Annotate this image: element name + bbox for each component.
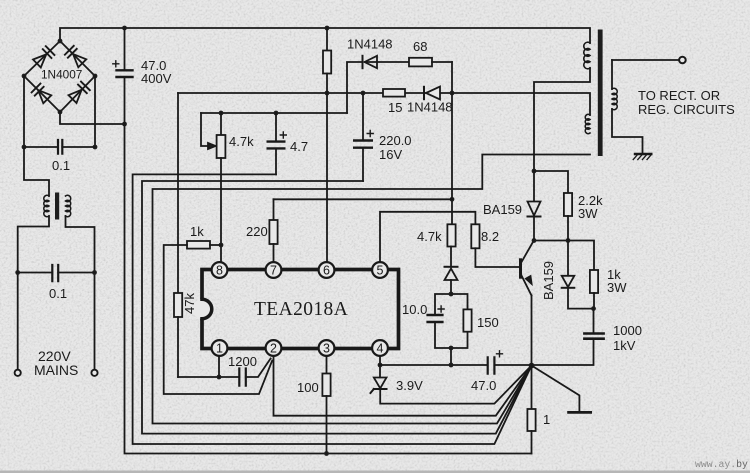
- node 1k / pin8 junction: [219, 243, 224, 248]
- svg-text:1N4007: 1N4007: [41, 68, 82, 82]
- node 1000 cap top: [591, 306, 596, 311]
- wire star to chassis ground: [532, 366, 580, 412]
- wire x452 branch: [451, 62, 453, 224]
- wire star line y365: [380, 339, 594, 365]
- wire pin1 lead: [218, 356, 220, 377]
- capacitor C8 47.0: [488, 351, 503, 374]
- IC notch: [192, 299, 212, 319]
- diode D7 BA159 lower: [562, 241, 594, 309]
- inductor L1a choke left winding: [44, 195, 49, 216]
- svg-text:1N4148: 1N4148: [347, 37, 393, 52]
- node y93 C5 top: [361, 91, 366, 96]
- terminal mains left: [15, 370, 21, 376]
- svg-text:MAINS: MAINS: [34, 362, 78, 378]
- svg-text:1: 1: [543, 412, 550, 427]
- pin 5: [372, 262, 388, 278]
- svg-text:0.1: 0.1: [49, 286, 67, 301]
- transistor Q1 emitter: [522, 276, 532, 366]
- resistor R8 8.2: [471, 224, 519, 267]
- wire choke left to mains left: [18, 216, 49, 370]
- wire y171 to 2.2k: [534, 171, 568, 193]
- node x452 y199: [450, 197, 455, 202]
- svg-text:4: 4: [377, 342, 384, 356]
- svg-text:4.7k: 4.7k: [229, 134, 254, 149]
- wire choke right to mains right: [66, 216, 95, 370]
- wire bus L2: [133, 174, 532, 444]
- node 0.1 lower left: [15, 270, 20, 275]
- capacitor C3 0.1 lower: [18, 265, 95, 281]
- node C4 top: [274, 111, 279, 116]
- wire secondary output: [612, 59, 679, 61]
- wire pin7 y199 line: [274, 198, 453, 200]
- wire primary bottom to collector: [534, 68, 590, 171]
- transformer T1 primary winding: [584, 42, 590, 69]
- capacitor C5 220.0 16V: [354, 93, 373, 181]
- terminal output circle: [679, 57, 686, 64]
- svg-text:2: 2: [270, 342, 277, 356]
- wire left AC to choke: [24, 147, 49, 196]
- svg-text:1kV: 1kV: [613, 338, 636, 353]
- resistor R11 1: [527, 366, 535, 454]
- svg-text:1200: 1200: [228, 354, 257, 369]
- wire 1200 line: [178, 359, 271, 378]
- svg-text:4.7: 4.7: [290, 139, 308, 154]
- svg-text:1000: 1000: [613, 323, 642, 338]
- wire 10-150 network: [435, 294, 468, 365]
- choke core: [55, 193, 59, 220]
- node C1 bottom junction: [122, 122, 127, 127]
- transformer T1 aux winding: [585, 114, 590, 133]
- svg-text:8: 8: [216, 264, 223, 278]
- node bridge bottom: [58, 110, 63, 115]
- svg-text:220.0: 220.0: [379, 133, 412, 148]
- svg-text:1: 1: [216, 342, 223, 356]
- diode D5 zener 3.9V: [371, 366, 532, 404]
- node 0.1 cap line right: [93, 145, 98, 150]
- node zener rail: [449, 292, 454, 297]
- wire main left ground bus: [125, 124, 532, 454]
- svg-text:6: 6: [323, 264, 330, 278]
- node pot top: [219, 111, 224, 116]
- terminal mains right: [91, 370, 97, 376]
- svg-text:www.ay.by: www.ay.by: [695, 459, 748, 470]
- svg-text:400V: 400V: [141, 71, 172, 86]
- node pin4 / 47 line: [378, 363, 383, 368]
- pin 6: [319, 262, 335, 278]
- svg-text:TEA2018A: TEA2018A: [254, 299, 348, 320]
- svg-text:47.0: 47.0: [471, 378, 496, 393]
- svg-text:1N4148: 1N4148: [407, 100, 453, 115]
- svg-text:7: 7: [270, 264, 277, 278]
- diode bridge top-left: [33, 46, 54, 67]
- node bridge right: [93, 74, 98, 79]
- resistor R7 4.7k: [447, 224, 455, 266]
- node 47 line / 10-150: [449, 363, 454, 368]
- wire pin2 drop: [274, 356, 532, 415]
- svg-text:220: 220: [246, 224, 268, 239]
- diode D6 BA159 upper: [528, 171, 541, 241]
- pin 7: [266, 262, 282, 278]
- wire pin4 lead: [379, 356, 381, 377]
- node bridge left: [22, 74, 27, 79]
- svg-text:8.2: 8.2: [481, 229, 499, 244]
- node 10-150 bottom: [449, 346, 454, 351]
- resistor R12 2.2k 3W: [564, 193, 572, 241]
- capacitor C9 1000 1kV: [584, 309, 603, 339]
- svg-text:68: 68: [413, 39, 427, 54]
- resistor R4 15: [383, 89, 405, 97]
- node star ground point: [529, 363, 535, 369]
- diode D4 zener under 4.7k: [445, 267, 458, 294]
- bridge rectifier B1 1N4007 frame: [24, 41, 95, 112]
- svg-text:16V: 16V: [379, 147, 402, 162]
- node bridge top: [58, 39, 63, 44]
- resistor R13 1k 3W: [590, 270, 598, 309]
- resistor R-pin6 unlabeled: [323, 28, 331, 262]
- wire supply line y93: [178, 93, 590, 115]
- node 0.1 cap line left: [22, 145, 27, 150]
- wire feedback line y113: [201, 112, 347, 114]
- svg-text:TO RECT. OR: TO RECT. OR: [638, 88, 720, 103]
- pin 3: [319, 340, 335, 356]
- svg-text:3W: 3W: [607, 280, 627, 295]
- svg-text:3.9V: 3.9V: [396, 378, 423, 393]
- capacitor C7 1200: [239, 369, 246, 386]
- ground chassis bar: [569, 411, 591, 414]
- node y93 x452: [450, 91, 455, 96]
- wire bus L3: [142, 181, 532, 434]
- node top rail / R-pin6 junction: [325, 26, 330, 31]
- node 2.2k bottom / BA159b top: [566, 238, 571, 243]
- svg-text:4.7k: 4.7k: [417, 229, 442, 244]
- wire bridge right leg: [94, 76, 96, 147]
- wire 1k left to pin2: [164, 245, 273, 394]
- pin 2: [266, 340, 282, 356]
- capacitor C2 0.1 upper: [24, 140, 95, 154]
- svg-text:5: 5: [377, 264, 384, 278]
- diode bridge bottom-right: [69, 82, 90, 103]
- svg-text:10.0: 10.0: [402, 302, 427, 317]
- resistor R2 47k: [174, 293, 182, 377]
- node 100-resistor / ground bus: [324, 451, 329, 456]
- diode D3 1N4148 lower: [424, 87, 440, 100]
- wire 47k branch from y93: [177, 93, 179, 293]
- svg-text:1k: 1k: [190, 224, 204, 239]
- transistor Q1 collector: [522, 241, 534, 263]
- wire bridge left leg: [23, 76, 25, 147]
- node y93 pin6 line: [325, 91, 330, 96]
- svg-text:150: 150: [477, 315, 499, 330]
- transformer T1 secondary winding: [612, 60, 643, 153]
- capacitor C4 4.7: [268, 113, 287, 174]
- pin 4: [372, 340, 388, 356]
- svg-text:47k: 47k: [182, 293, 197, 314]
- wire bridge bottom to C1 bottom: [60, 112, 125, 124]
- transformer T1 core: [598, 30, 603, 157]
- svg-text:BA159: BA159: [483, 202, 522, 217]
- wire pin5 line: [380, 212, 475, 262]
- potentiometer R1 4.7k wiper: [201, 113, 216, 149]
- capacitor C1 47.0 400V: [113, 28, 133, 124]
- node top rail / C1 junction: [122, 26, 127, 31]
- svg-text:3: 3: [323, 342, 330, 356]
- svg-text:15: 15: [388, 100, 402, 115]
- resistor R9 150: [463, 309, 471, 331]
- ground hatched secondary: [633, 154, 651, 160]
- potentiometer R1 4.7k body: [217, 113, 226, 262]
- wire collector line y240: [534, 241, 594, 271]
- transistor Q1 base bar: [519, 260, 522, 277]
- inductor L1b choke right winding: [66, 195, 71, 216]
- wire top HV rail: [60, 28, 590, 43]
- pin 1: [212, 340, 228, 356]
- wire diode branch upper y62: [347, 62, 409, 113]
- svg-text:100: 100: [297, 380, 319, 395]
- IC U1 TEA2018A body: [202, 270, 399, 349]
- node 0.1 lower right: [92, 270, 97, 275]
- diode bridge bottom-left: [32, 84, 52, 104]
- diode D2 1N4148 upper: [363, 56, 378, 68]
- node collector: [532, 238, 537, 243]
- wire bus L4 aux return: [153, 155, 591, 424]
- diode bridge top-right: [65, 46, 86, 67]
- svg-text:BA159: BA159: [541, 261, 556, 300]
- pin 8: [212, 262, 228, 278]
- node x534 y171: [532, 169, 537, 174]
- node pin1 lead: [217, 375, 222, 380]
- resistor R3 68: [409, 58, 452, 67]
- svg-text:3W: 3W: [578, 206, 598, 221]
- resistor R6 220: [269, 199, 277, 261]
- resistor R10 100: [322, 356, 330, 453]
- svg-text:0.1: 0.1: [52, 158, 70, 173]
- resistor R5 1k: [187, 241, 221, 249]
- capacitor C6 10.0: [428, 306, 445, 322]
- svg-text:REG. CIRCUITS: REG. CIRCUITS: [638, 102, 735, 117]
